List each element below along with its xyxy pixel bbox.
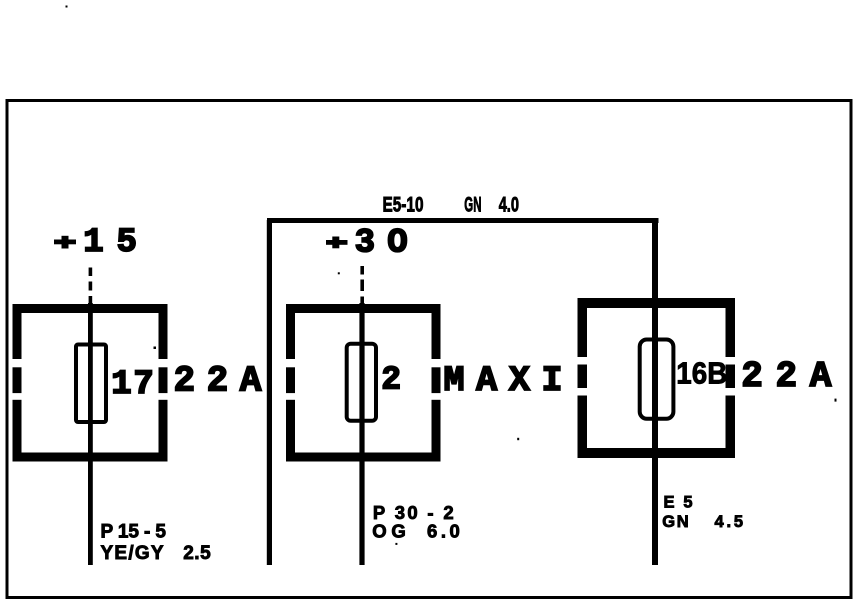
- svg-text:4.0: 4.0: [499, 194, 519, 217]
- svg-text:22A: 22A: [174, 361, 262, 402]
- svg-text:22A: 22A: [741, 356, 831, 397]
- svg-text:E5-10: E5-10: [383, 194, 424, 217]
- svg-text:17: 17: [111, 366, 154, 404]
- svg-text:2: 2: [381, 362, 401, 399]
- svg-text:16B: 16B: [676, 356, 727, 391]
- svg-text:4.5: 4.5: [715, 513, 744, 531]
- svg-text:2.5: 2.5: [183, 543, 211, 564]
- svg-text:P 15 - 5: P 15 - 5: [101, 522, 167, 543]
- svg-text:GN: GN: [464, 194, 481, 217]
- svg-text:6.0: 6.0: [427, 521, 460, 542]
- svg-text:YE/GY: YE/GY: [101, 543, 164, 564]
- svg-text:E 5: E 5: [664, 494, 693, 512]
